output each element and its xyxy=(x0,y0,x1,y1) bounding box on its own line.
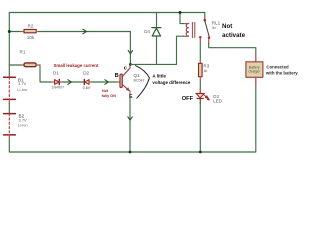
relay coil RL1 xyxy=(177,13,221,65)
svg-text:RL1: RL1 xyxy=(212,21,221,26)
svg-text:LED: LED xyxy=(213,99,222,104)
wire D1 to D2 with current arrow xyxy=(63,81,84,83)
svg-text:Li-ion: Li-ion xyxy=(17,87,27,92)
svg-text:D4: D4 xyxy=(144,29,150,34)
junction dot LED branch/bottom rail xyxy=(199,151,202,154)
svg-text:with the battery: with the battery xyxy=(265,70,298,75)
wire R3 to LED xyxy=(199,80,201,93)
svg-text:R1: R1 xyxy=(20,50,26,55)
svg-text:Q1: Q1 xyxy=(134,73,141,78)
wire bottom rail xyxy=(9,85,256,153)
wire LED to bottom rail xyxy=(199,99,201,152)
wire emitter riser xyxy=(129,95,131,153)
current arrow down to collector xyxy=(128,50,132,53)
svg-text:3.7V: 3.7V xyxy=(18,81,27,86)
svg-text:D2: D2 xyxy=(83,71,89,76)
wire top rail xyxy=(9,13,205,32)
svg-text:OFF: OFF xyxy=(182,96,194,102)
resistor R2 xyxy=(9,23,39,40)
current arrow emitter riser xyxy=(128,117,132,120)
junction dot R2/left rail xyxy=(8,30,11,33)
svg-text:c: c xyxy=(124,65,127,71)
svg-text:D1: D1 xyxy=(53,71,59,76)
svg-text:10k: 10k xyxy=(27,35,35,40)
svg-text:A little: A little xyxy=(152,73,166,78)
svg-text:Small leakage current: Small leakage current xyxy=(54,63,99,68)
svg-text:Not: Not xyxy=(102,89,109,93)
wire D2 to base with current arrow xyxy=(92,81,117,83)
svg-text:fully ON: fully ON xyxy=(102,94,116,98)
battery B2 3.7V Li-ion xyxy=(4,114,28,140)
wire R1 down to diode row xyxy=(40,65,52,82)
diode D4 flyback xyxy=(144,28,161,36)
svg-text:1N4007: 1N4007 xyxy=(52,86,65,90)
svg-text:0.6V: 0.6V xyxy=(83,86,91,90)
battery B1 3.7V Li-ion xyxy=(4,77,27,103)
svg-text:B: B xyxy=(115,73,119,79)
wire collector node to coil drop xyxy=(130,63,176,65)
resistor R3 1k xyxy=(199,43,210,81)
svg-text:activate: activate xyxy=(222,32,246,39)
svg-text:Li-ion: Li-ion xyxy=(18,123,28,128)
diode D1 1N4007 xyxy=(52,71,65,90)
wire R2 to collector node xyxy=(39,32,130,65)
svg-text:Not: Not xyxy=(222,23,232,30)
svg-text:R3: R3 xyxy=(203,63,209,68)
svg-text:voltage difference: voltage difference xyxy=(152,80,191,85)
wire left rail upper xyxy=(8,32,10,77)
battery charger box xyxy=(246,55,263,85)
LED D3 xyxy=(196,89,222,105)
svg-text:Connected: Connected xyxy=(266,64,289,69)
relay core xyxy=(191,22,193,37)
transistor Q1 BC547 xyxy=(117,65,145,95)
svg-text:charger: charger xyxy=(249,70,261,74)
relay switch xyxy=(199,13,210,44)
junction dot collector node xyxy=(129,63,132,66)
annotation brace xyxy=(136,66,150,99)
svg-text:BC547: BC547 xyxy=(134,79,145,83)
diode D2 (reversed) 0.6V xyxy=(83,71,92,90)
current arrow on R2 wire xyxy=(83,29,87,34)
junction dot emitter/bottom rail xyxy=(129,151,132,154)
svg-text:1k: 1k xyxy=(204,69,208,73)
svg-text:5v: 5v xyxy=(212,26,216,30)
svg-text:R2: R2 xyxy=(28,23,34,28)
resistor R1 xyxy=(9,50,40,67)
wire flyback diode riser xyxy=(156,13,158,65)
wire right throw to charger box xyxy=(209,44,256,55)
wire between batteries xyxy=(8,104,10,114)
junction dot coil/top rail xyxy=(179,11,182,14)
